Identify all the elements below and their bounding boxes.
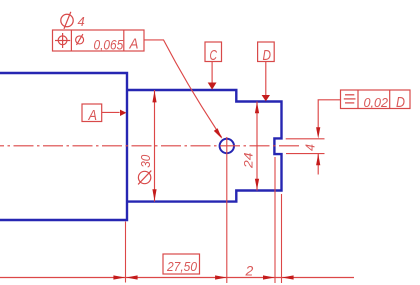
svg-text:0,065: 0,065 (94, 37, 124, 52)
diameter dimension O30: dimension line (154, 90, 156, 202)
leader from FCF2 down to slot (318, 100, 340, 128)
svg-text:4: 4 (78, 14, 85, 29)
datum A leader (102, 111, 120, 113)
datum C box (205, 42, 222, 62)
extension line at shoulder x=125.5 (125, 222, 127, 283)
slot dimension 4: lower arrow and tail (317, 154, 319, 175)
feature control frame FCF2 (symmetry 0,02 D) (341, 90, 411, 109)
bottom dimension line (0, 277, 354, 279)
svg-text:A: A (88, 107, 97, 124)
27,50 right arrow pointing right (215, 275, 227, 279)
dimension 2 left arrow pointing right (263, 275, 275, 279)
datum D box (258, 42, 275, 62)
slot width dimension 4: extension lines (286, 138, 325, 140)
hole size label O4 (61, 12, 73, 29)
datum D stem (265, 62, 267, 96)
svg-text:2: 2 (245, 263, 254, 279)
arrow of off-screen dimension pointing right at x=125.5 (113, 275, 125, 279)
hole circle (220, 139, 234, 153)
svg-text:A: A (129, 36, 139, 53)
feature control frame FCF1 (position O 0,065 A) (53, 30, 145, 51)
24 bottom arrow (255, 179, 259, 190)
position symbol (55, 33, 70, 48)
part outline: stepped shaft right profile (O30 and O24 sections with end slot) (127, 90, 282, 202)
diameter symbol in FCF1 (76, 34, 84, 45)
datum C triangle (208, 83, 217, 90)
extension line at slot wall x=275 (274, 157, 276, 283)
datum C stem (211, 62, 213, 83)
svg-text:27,50: 27,50 (166, 259, 198, 274)
24 top arrow (255, 102, 259, 113)
leader from FCF1 to hole (144, 40, 222, 138)
svg-text:24: 24 (243, 153, 255, 170)
part outline: large left cylinder section (0, 73, 127, 220)
svg-text:0,02: 0,02 (364, 96, 389, 110)
datum A triangle (120, 110, 126, 116)
svg-text:C: C (210, 47, 218, 64)
diameter dimension 24: dimension line (256, 102, 258, 191)
datum D triangle (262, 95, 270, 101)
datum A box (82, 104, 102, 122)
O30 top arrow (152, 91, 156, 103)
27,50 basic dimension box (163, 254, 200, 274)
27,50 left arrow pointing left (126, 275, 138, 279)
svg-text:D: D (396, 94, 405, 111)
O30 text (rotated) (138, 171, 151, 185)
horizontal centerline (0, 145, 301, 147)
svg-text:D: D (263, 47, 272, 64)
svg-text:30: 30 (139, 155, 153, 168)
symmetry symbol (344, 95, 356, 103)
hole vertical centerline / extension line (226, 137, 228, 283)
svg-text:4: 4 (304, 144, 318, 151)
dimension 2 right arrow pointing left (282, 275, 294, 279)
extension line at end face x=281.5 (281, 194, 283, 283)
O30 bottom arrow (152, 189, 156, 201)
